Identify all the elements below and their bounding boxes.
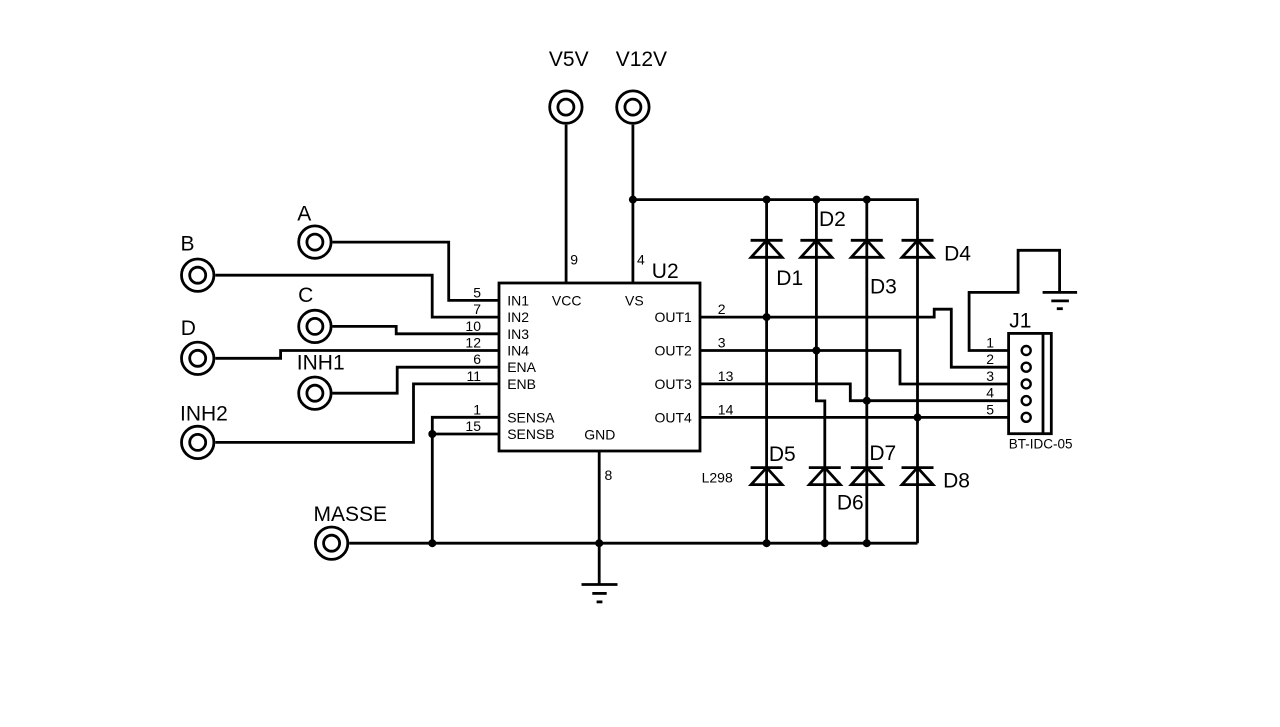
svg-text:1: 1 [473,401,481,417]
svg-text:L298: L298 [702,469,733,485]
svg-text:ENB: ENB [507,376,536,392]
svg-text:D4: D4 [944,243,971,266]
svg-text:14: 14 [718,401,734,417]
svg-text:D2: D2 [819,208,846,231]
svg-text:4: 4 [637,251,645,267]
svg-text:V12V: V12V [616,48,667,71]
svg-text:D: D [181,317,196,340]
svg-text:BT-IDC-05: BT-IDC-05 [1009,437,1073,452]
svg-text:D7: D7 [869,442,896,465]
svg-text:OUT3: OUT3 [654,376,692,392]
svg-text:INH1: INH1 [297,352,345,375]
svg-text:2: 2 [718,301,726,317]
svg-text:11: 11 [466,368,481,384]
svg-text:7: 7 [473,301,481,317]
svg-text:6: 6 [473,351,481,367]
svg-text:SENSA: SENSA [507,409,555,425]
svg-text:J1: J1 [1009,310,1031,333]
svg-text:IN1: IN1 [507,292,529,308]
svg-text:8: 8 [605,467,613,483]
svg-text:OUT4: OUT4 [654,409,692,425]
svg-text:OUT1: OUT1 [654,309,692,325]
svg-text:SENSB: SENSB [507,426,554,442]
svg-text:3: 3 [718,335,726,351]
svg-text:D6: D6 [837,492,864,515]
svg-text:9: 9 [570,252,578,268]
svg-text:VS: VS [625,292,644,308]
svg-text:B: B [181,233,195,256]
svg-text:OUT2: OUT2 [654,343,692,359]
svg-text:3: 3 [986,368,994,384]
svg-text:A: A [297,202,311,225]
svg-text:U2: U2 [652,260,679,283]
svg-text:5: 5 [986,401,994,417]
svg-text:1: 1 [986,335,994,351]
svg-text:4: 4 [986,385,994,401]
svg-text:D8: D8 [943,470,970,493]
svg-text:2: 2 [986,351,994,367]
svg-text:IN4: IN4 [507,343,529,359]
svg-text:GND: GND [584,427,615,443]
svg-text:V5V: V5V [549,48,589,71]
svg-text:D5: D5 [769,443,796,466]
svg-text:INH2: INH2 [180,403,228,426]
svg-text:VCC: VCC [552,292,582,308]
svg-text:5: 5 [473,284,481,300]
svg-text:IN3: IN3 [507,326,529,342]
svg-text:D3: D3 [870,275,897,298]
svg-text:D1: D1 [776,267,803,290]
svg-text:MASSE: MASSE [314,503,388,526]
svg-text:10: 10 [465,318,481,334]
svg-text:15: 15 [465,418,481,434]
svg-text:12: 12 [465,335,481,351]
svg-text:13: 13 [718,368,734,384]
svg-text:C: C [298,284,313,307]
svg-text:ENA: ENA [507,359,536,375]
svg-text:IN2: IN2 [507,309,529,325]
